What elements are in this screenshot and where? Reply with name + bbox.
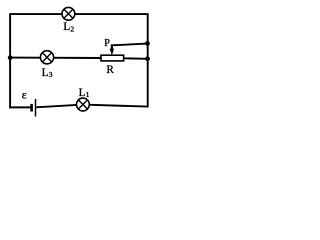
wire R right terminal <box>124 57 148 60</box>
wire bottom left segment <box>9 106 30 108</box>
wiper wire P <box>112 44 148 46</box>
battery cell: long thin plate <box>35 99 37 117</box>
node junction R-rail <box>145 56 150 61</box>
wiper stem <box>111 44 113 50</box>
resistor R <box>101 55 124 61</box>
node A junction left <box>8 55 13 60</box>
node junction wiper-rail <box>145 41 150 46</box>
lamp L3 <box>40 51 53 64</box>
wire middle (node to L3 to R) <box>10 57 101 59</box>
svg-text:R: R <box>106 64 114 76</box>
lamp L1 <box>77 98 90 111</box>
wire bottom right segment <box>83 105 148 107</box>
wire left rail <box>9 13 11 108</box>
svg-text:ε: ε <box>22 88 27 102</box>
wiper arrow <box>110 49 115 56</box>
battery cell: short thick plate <box>30 104 33 112</box>
svg-text:P: P <box>104 38 110 49</box>
wire bottom middle segment <box>36 105 83 108</box>
wire top <box>10 13 148 15</box>
wire right rail <box>147 13 149 107</box>
lamp L2 <box>62 7 75 20</box>
